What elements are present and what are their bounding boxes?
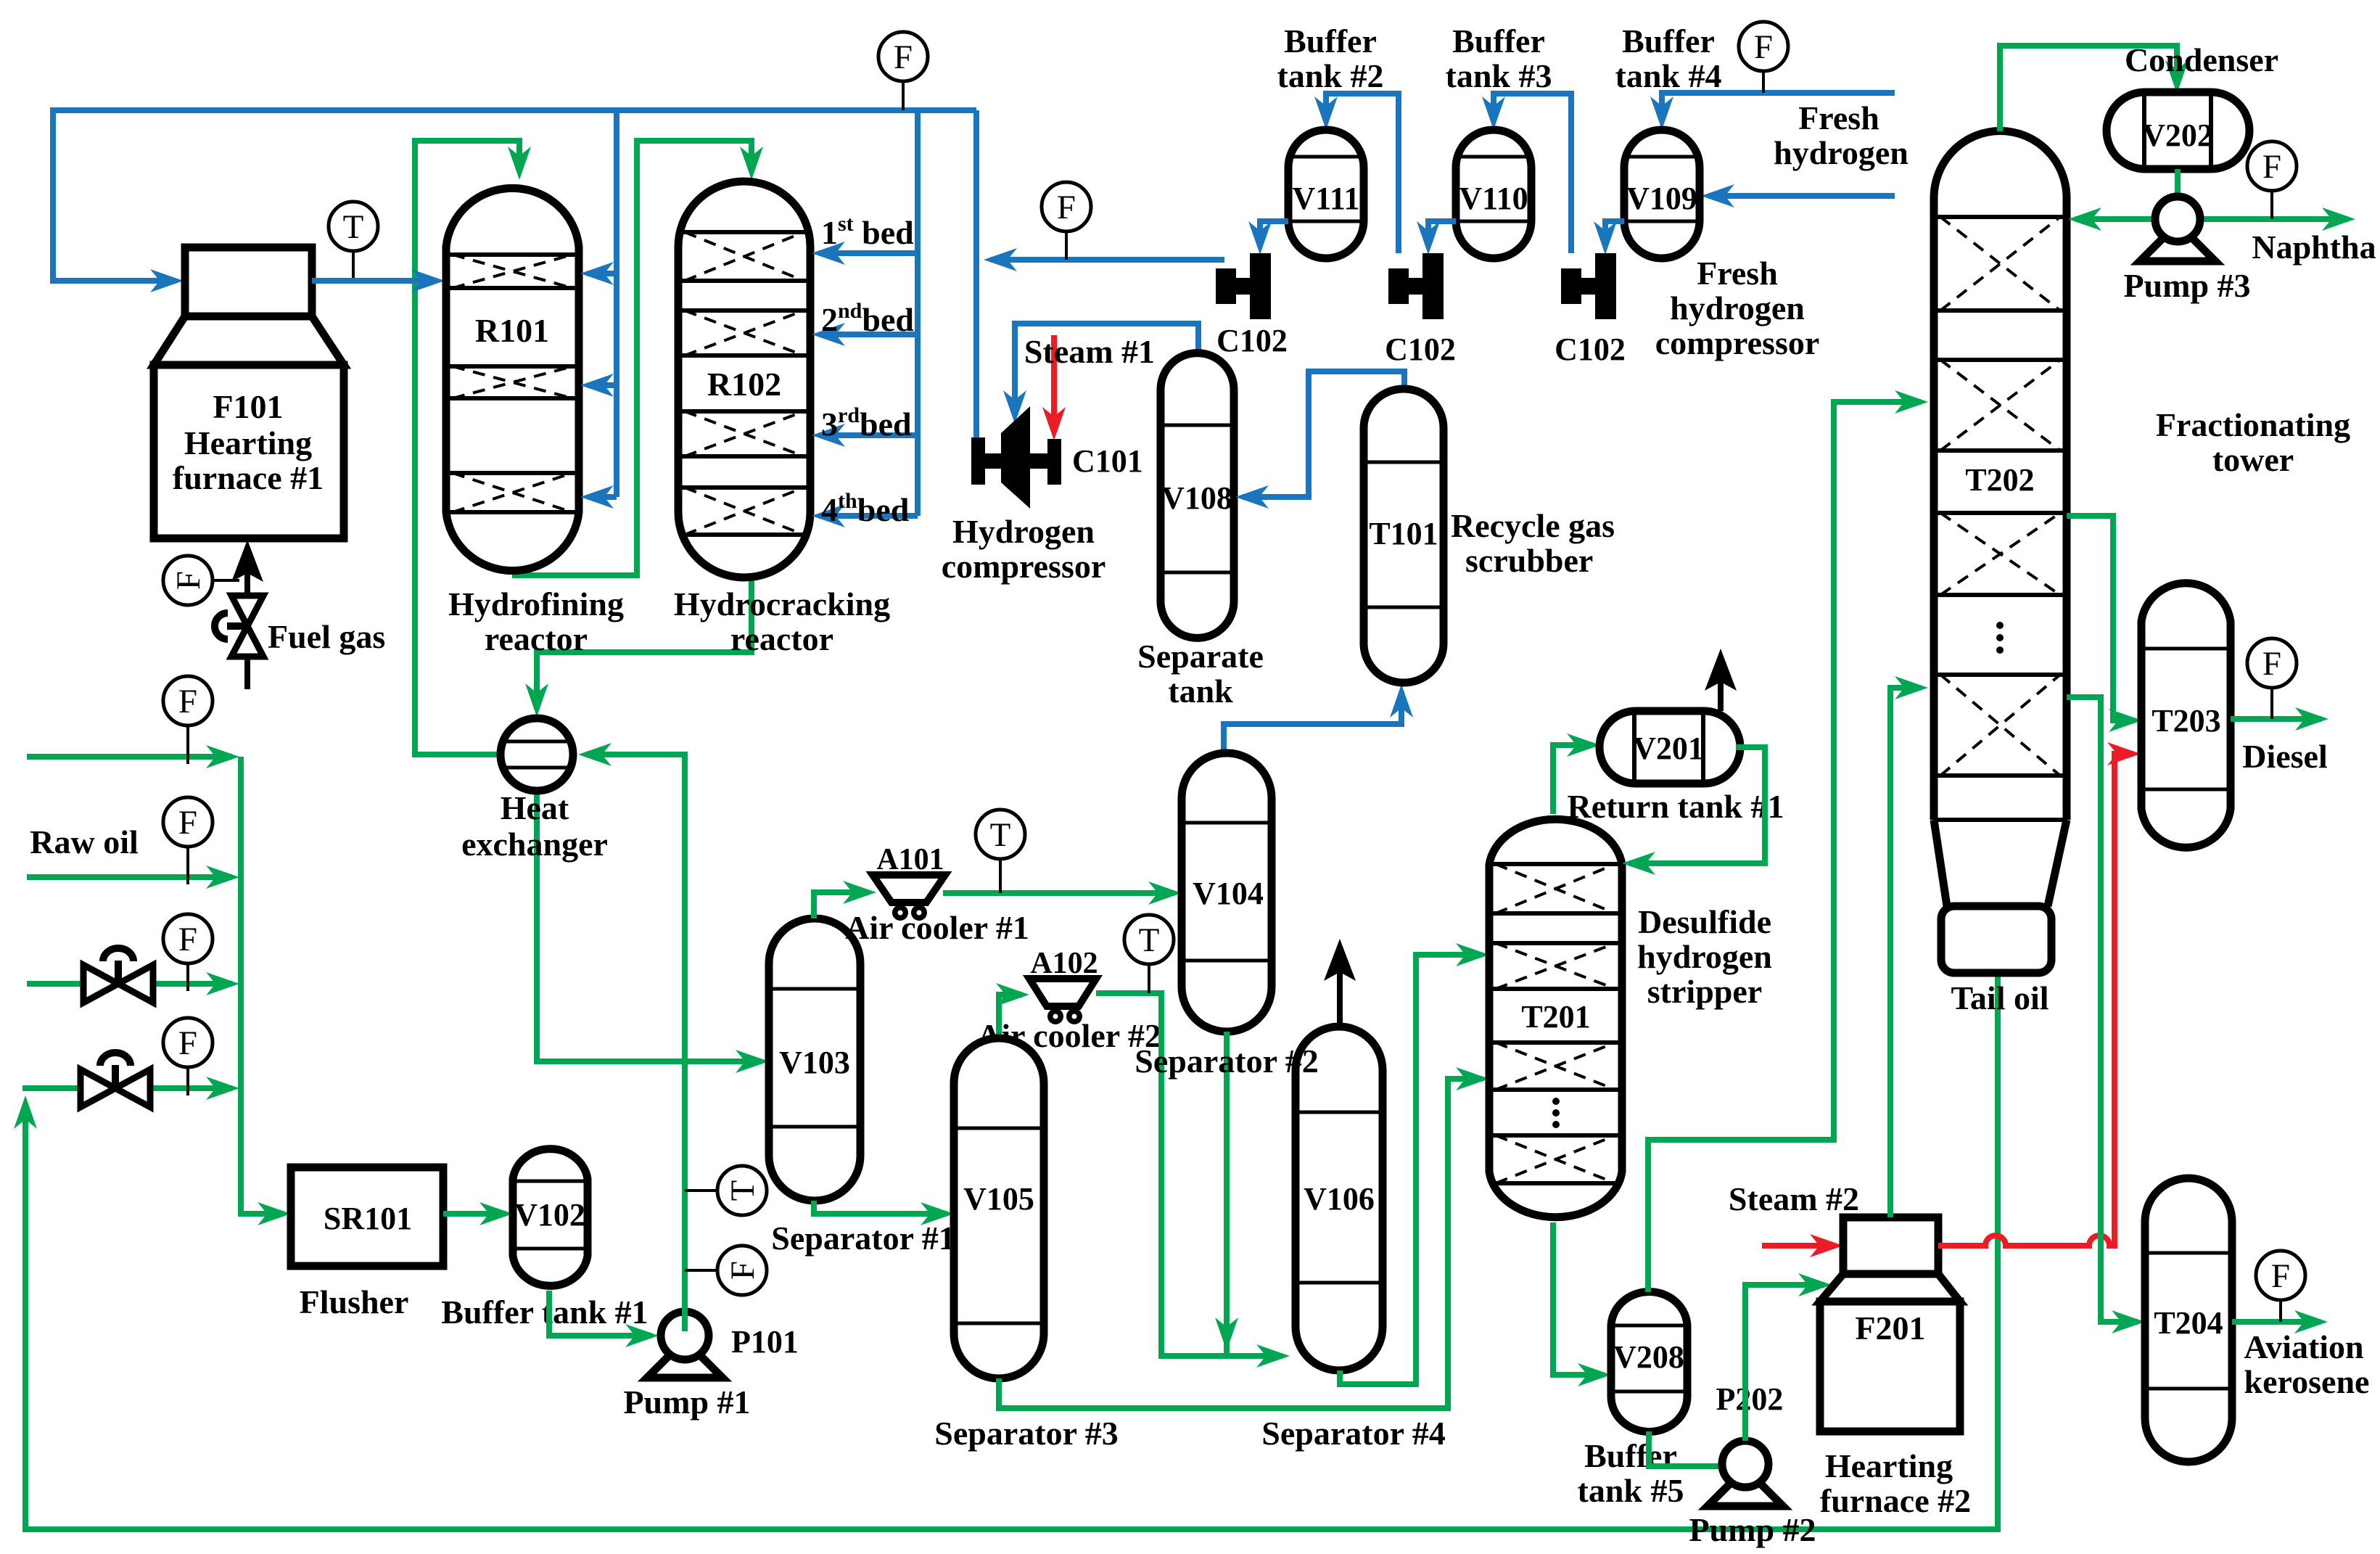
buffer tank V109 xyxy=(1624,130,1700,258)
wire: T201 bottoms to V208 (green) xyxy=(1553,1222,1604,1375)
valve raw oil 4 xyxy=(81,1069,115,1107)
svg-text:T203: T203 xyxy=(2152,703,2220,739)
svg-text:F: F xyxy=(2262,148,2281,186)
tower T202 taper and sump (Tail oil) xyxy=(1934,820,2067,906)
wire: V111 to C102 #1 (blue) xyxy=(1260,221,1288,246)
instrument F11 diesel xyxy=(2270,688,2273,719)
compressor C101 (Hydrogen compressor) xyxy=(971,437,985,485)
svg-text:V106: V106 xyxy=(1304,1181,1375,1217)
svg-text:hydrogen: hydrogen xyxy=(1774,134,1908,171)
svg-text:Condenser: Condenser xyxy=(2125,41,2278,78)
svg-text:T: T xyxy=(990,816,1011,854)
svg-text:R102: R102 xyxy=(707,366,781,403)
svg-text:Hydrogen: Hydrogen xyxy=(952,513,1095,550)
svg-text:Desulfide: Desulfide xyxy=(1638,903,1771,940)
svg-text:scrubber: scrubber xyxy=(1465,542,1593,579)
instrument T1 furnace outlet xyxy=(352,251,355,281)
reactor R102 (Hydrocracking) xyxy=(678,181,810,577)
svg-text:T204: T204 xyxy=(2154,1305,2223,1341)
svg-text:Fuel gas: Fuel gas xyxy=(268,618,385,655)
svg-text:Buffer: Buffer xyxy=(1622,22,1715,59)
pump P202 (Pump #2) xyxy=(1708,1468,1783,1506)
wire: V104 bottoms to V106 (green) xyxy=(1224,1032,1230,1356)
wire: raw oil line 2 (green) xyxy=(27,874,232,880)
wire: V103 overhead to air cooler A101 xyxy=(814,892,869,918)
svg-text:tower: tower xyxy=(2212,441,2294,478)
svg-text:4thbed: 4thbed xyxy=(821,489,910,528)
svg-text:furnace #1: furnace #1 xyxy=(173,459,324,496)
valve raw oil 3 xyxy=(83,965,118,1003)
wire: raw oil line 4 (green) xyxy=(22,1085,232,1091)
instrument T3 after A101 xyxy=(999,859,1002,893)
wire: V106 bottoms to T201 upper feed (green) xyxy=(1340,955,1482,1384)
svg-text:Separate: Separate xyxy=(1137,638,1264,675)
wire: R101 bottoms to R102 top (green) xyxy=(512,141,752,575)
svg-text:T202: T202 xyxy=(1965,462,2034,498)
svg-text:A102: A102 xyxy=(1030,947,1098,980)
svg-text:hydrogen: hydrogen xyxy=(1637,938,1772,975)
buffer tank V110 xyxy=(1456,130,1531,258)
separator V106 xyxy=(1296,1027,1383,1370)
instrument F7 on P101 riser xyxy=(685,1269,717,1272)
svg-text:Raw oil: Raw oil xyxy=(30,823,139,860)
instrument F10 naphtha xyxy=(2270,191,2273,219)
wire: C102 #3 to V110 (blue) xyxy=(1494,94,1571,253)
svg-text:furnace #2: furnace #2 xyxy=(1820,1482,1971,1519)
svg-text:Diesel: Diesel xyxy=(2242,738,2328,775)
svg-text:P202: P202 xyxy=(1716,1381,1784,1417)
wire: V103 bottoms to V105 (green) xyxy=(814,1201,947,1214)
svg-text:Pump #1: Pump #1 xyxy=(623,1384,750,1421)
svg-text:V104: V104 xyxy=(1193,876,1264,911)
compressor C102 #2 xyxy=(1388,268,1409,304)
svg-text:Separator #2: Separator #2 xyxy=(1135,1043,1318,1080)
svg-text:C102: C102 xyxy=(1216,323,1288,358)
svg-text:Fresh: Fresh xyxy=(1798,99,1879,136)
wire: V201 to T201 reflux (green) xyxy=(1629,747,1765,863)
svg-text:Hearting: Hearting xyxy=(184,424,312,461)
instrument F1 on recycle header xyxy=(902,81,905,110)
wire: heat exchanger to R101 top (green) xyxy=(415,141,519,755)
air cooler A102 xyxy=(1029,979,1096,1006)
instrument T2 on P101 riser xyxy=(685,1189,717,1192)
svg-text:P101: P101 xyxy=(731,1324,799,1360)
separator V103 xyxy=(769,918,860,1201)
svg-text:T101: T101 xyxy=(1369,516,1438,551)
wire: V102 to pump P101 xyxy=(549,1291,651,1336)
svg-text:stripper: stripper xyxy=(1647,973,1762,1010)
svg-text:A101: A101 xyxy=(876,843,944,876)
wire: fresh hydrogen supply lower (blue) xyxy=(1708,193,1895,199)
tower T202 internals xyxy=(1938,215,2063,219)
svg-text:SR101: SR101 xyxy=(324,1201,412,1236)
scrubber T101 (Recycle gas scrubber) xyxy=(1364,389,1444,683)
wire: V208 bottoms to pump P202 (green) xyxy=(1649,1431,1722,1466)
svg-text:Separator #3: Separator #3 xyxy=(934,1415,1118,1452)
wire: V208 overhead to fractionating tower T202 (green) xyxy=(1648,402,1921,1292)
wire: F201 heated outlet to T202 lower feed (green) xyxy=(1890,688,1921,1217)
svg-text:Steam #2: Steam #2 xyxy=(1729,1180,1859,1217)
wire: quench hydrogen to R101 beds (blue) xyxy=(614,110,619,497)
svg-text:exchanger: exchanger xyxy=(461,826,608,863)
svg-text:Separator #4: Separator #4 xyxy=(1261,1415,1445,1452)
svg-text:C102: C102 xyxy=(1385,332,1456,367)
tower T204 xyxy=(2145,1178,2232,1462)
svg-text:compressor: compressor xyxy=(1655,324,1820,361)
wire: T101 overhead to V108 (blue) xyxy=(1243,371,1404,497)
svg-text:C101: C101 xyxy=(1072,443,1143,479)
instrument F6 raw oil 4 xyxy=(186,1067,189,1095)
wire: V110 to C102 #2 (blue) xyxy=(1428,221,1456,246)
separate tank V108 xyxy=(1161,353,1234,638)
compressor C102 #1 xyxy=(1216,268,1236,304)
svg-text:V102: V102 xyxy=(514,1197,585,1233)
wire: recycle hydrogen main header (blue) xyxy=(53,110,976,281)
wire: C102 train discharge to riser (blue) xyxy=(991,257,1224,263)
svg-text:compressor: compressor xyxy=(942,548,1106,585)
svg-text:T: T xyxy=(1139,921,1160,959)
wire: V105 bottoms to T201 lower feed (green) xyxy=(999,1079,1482,1408)
svg-text:Heat: Heat xyxy=(501,789,569,826)
svg-text:F: F xyxy=(2271,1257,2290,1295)
air cooler A101 xyxy=(873,875,945,903)
svg-text:F101: F101 xyxy=(213,388,283,425)
svg-text:Pump #2: Pump #2 xyxy=(1689,1511,1816,1548)
return tank V201 xyxy=(1599,711,1740,784)
svg-text:Buffer: Buffer xyxy=(1452,22,1545,59)
wire: fuel gas line xyxy=(244,570,250,689)
svg-text:V105: V105 xyxy=(963,1181,1034,1217)
svg-text:F: F xyxy=(1754,28,1773,66)
wire: heat exchanger bottoms to V103 (green) xyxy=(537,791,762,1061)
svg-text:F: F xyxy=(1057,189,1076,226)
svg-text:Air cooler #1: Air cooler #1 xyxy=(845,909,1029,946)
wire: aviation kerosene product (green) xyxy=(2232,1319,2321,1325)
wire: T202 lower side draw to T204 (green) xyxy=(2067,697,2138,1322)
wire: V106 vent (black) xyxy=(1337,952,1343,1027)
stripper T201 (Desulfide hydrogen stripper) xyxy=(1489,819,1622,1217)
buffer tank V111 xyxy=(1288,130,1364,258)
svg-text:Aviation: Aviation xyxy=(2244,1328,2363,1365)
svg-text:tank #5: tank #5 xyxy=(1578,1472,1684,1509)
svg-text:F201: F201 xyxy=(1855,1310,1925,1347)
wire: tail oil recycle to raw oil (green) xyxy=(25,973,1998,1529)
svg-text:F: F xyxy=(170,571,207,590)
svg-text:tank: tank xyxy=(1168,673,1233,710)
svg-text:V202: V202 xyxy=(2142,118,2213,153)
wire: V105 overhead to air cooler A102 xyxy=(999,995,1022,1038)
svg-text:F: F xyxy=(178,921,197,958)
svg-text:Hydrofining: Hydrofining xyxy=(448,585,624,622)
wire: A102 to V106 (green) xyxy=(1096,993,1282,1356)
svg-text:T: T xyxy=(343,208,364,246)
wire: Steam #1 to C101 (red) xyxy=(1051,335,1057,432)
svg-text:V208: V208 xyxy=(1613,1339,1684,1375)
svg-text:Flusher: Flusher xyxy=(300,1283,409,1320)
svg-text:F: F xyxy=(2262,645,2281,683)
wire: Steam #2 to F201 (red) xyxy=(1762,1243,1835,1249)
svg-text:1st bed: 1st bed xyxy=(821,212,914,251)
instrument F5 raw oil 3 xyxy=(186,963,189,991)
wire: V202 to pump P203 (green) xyxy=(2175,169,2181,197)
svg-text:F: F xyxy=(178,1024,197,1062)
svg-text:Buffer tank #1: Buffer tank #1 xyxy=(441,1294,648,1331)
svg-text:V201: V201 xyxy=(1633,731,1704,766)
compressor C102 #3 xyxy=(1561,268,1581,304)
svg-text:T201: T201 xyxy=(1521,999,1590,1035)
wire: V109 to C102 #3 (blue) xyxy=(1605,221,1624,246)
wire: V201 vent (black) xyxy=(1718,662,1724,711)
svg-text:Tail oil: Tail oil xyxy=(1951,979,2048,1016)
svg-text:V111: V111 xyxy=(1293,181,1360,216)
wire: diesel product (green) xyxy=(2231,716,2321,722)
separator V105 xyxy=(954,1038,1044,1378)
wire: C102 #2 to V111 (blue) xyxy=(1326,94,1399,253)
wire: quench hydrogen to R102 beds (blue) xyxy=(915,110,921,516)
buffer tank V102 xyxy=(513,1149,588,1286)
svg-text:3rdbed: 3rdbed xyxy=(821,403,912,443)
svg-text:Pump #3: Pump #3 xyxy=(2123,267,2250,304)
wire: naphtha product and reflux (green) xyxy=(2075,216,2348,222)
wire: raw oil line 1 (green) xyxy=(27,754,232,760)
svg-text:T: T xyxy=(724,1180,762,1201)
tower T203 xyxy=(2141,583,2231,848)
wire: A101 to V104 (green) xyxy=(943,890,1174,896)
wire: furnace F101 outlet to R101 (blue) xyxy=(312,278,434,284)
wire: raw oil line 3 (green) xyxy=(27,981,232,987)
reactor R101 (Hydrofining) xyxy=(446,188,579,570)
flusher SR101 xyxy=(291,1167,443,1266)
buffer tank V208 (Buffer tank #5) xyxy=(1611,1292,1687,1432)
svg-text:Steam #1: Steam #1 xyxy=(1024,333,1155,370)
wire: compressor discharge riser (blue) xyxy=(973,110,979,437)
separator V104 xyxy=(1182,753,1272,1032)
svg-text:Hydrocracking: Hydrocracking xyxy=(674,585,890,622)
heat exchanger xyxy=(501,718,573,791)
svg-text:F: F xyxy=(178,683,197,720)
svg-text:tank #4: tank #4 xyxy=(1615,57,1722,94)
condenser V202 xyxy=(2107,92,2249,169)
svg-text:Recycle gas: Recycle gas xyxy=(1451,507,1615,544)
furnace F201 (Hearting furnace #2) xyxy=(1843,1217,1938,1274)
svg-text:tank #3: tank #3 xyxy=(1446,57,1552,94)
wire: P101 discharge to heat exchanger (green) xyxy=(585,755,685,1331)
wire: P202 discharge to furnace F201 (green) xyxy=(1745,1285,1824,1441)
wire: T201 overhead to V201 (green) xyxy=(1553,745,1593,814)
svg-text:V103: V103 xyxy=(779,1045,850,1080)
instrument F12 aviation kerosene xyxy=(2279,1300,2282,1322)
svg-text:Return tank #1: Return tank #1 xyxy=(1567,788,1784,825)
instrument T4 after A102 xyxy=(1148,964,1150,993)
svg-text:2ndbed: 2ndbed xyxy=(821,299,914,338)
instrument F4 raw oil 2 xyxy=(186,847,189,884)
instrument F9 fresh hydrogen xyxy=(1762,71,1765,93)
svg-text:hydrogen: hydrogen xyxy=(1670,289,1805,326)
svg-text:V108: V108 xyxy=(1161,480,1232,516)
pump P203 (Pump #3) xyxy=(2140,223,2215,261)
svg-text:V109: V109 xyxy=(1626,181,1697,216)
svg-text:C102: C102 xyxy=(1555,332,1626,367)
furnace F101 xyxy=(185,247,312,316)
fractionating tower T202 xyxy=(1934,131,2067,820)
svg-text:reactor: reactor xyxy=(485,620,588,657)
valve fuel gas xyxy=(231,596,263,626)
svg-text:Separator #1: Separator #1 xyxy=(771,1220,955,1257)
instrument F8 on compressor discharge xyxy=(1065,231,1068,260)
instrument F3 raw oil 1 xyxy=(186,725,189,764)
wire: R102 bottoms to heat exchanger (green) xyxy=(537,577,752,710)
svg-text:Buffer: Buffer xyxy=(1284,22,1377,59)
svg-text:Hearting: Hearting xyxy=(1825,1447,1953,1484)
wire: raw oil collector to flusher SR101 xyxy=(241,757,284,1214)
wire: F201 hot oil to T203 (red, hops over green lines) xyxy=(1938,754,2133,1246)
svg-text:tank #2: tank #2 xyxy=(1277,57,1384,94)
svg-text:F: F xyxy=(724,1261,762,1280)
wire: SR101 to V102 xyxy=(443,1211,506,1217)
svg-text:V110: V110 xyxy=(1459,181,1528,216)
svg-text:F: F xyxy=(178,804,197,842)
svg-text:reactor: reactor xyxy=(730,620,833,657)
wire: V104 overhead to T101 bottom (blue) xyxy=(1224,691,1401,753)
svg-text:F: F xyxy=(894,38,913,76)
wire: T202 side draw to T203 (green) xyxy=(2067,516,2135,720)
wire: V108 overhead to C101 suction (blue) xyxy=(1015,324,1198,415)
svg-text:Naphtha: Naphtha xyxy=(2252,229,2376,266)
svg-text:kerosene: kerosene xyxy=(2244,1363,2370,1400)
instrument F2 fuel gas xyxy=(213,579,239,582)
svg-text:Fractionating: Fractionating xyxy=(2156,406,2350,443)
wire: fresh hydrogen supply top (blue) xyxy=(1662,93,1895,121)
svg-text:R101: R101 xyxy=(475,312,549,349)
wire: T202 overhead to condenser V202 (green) xyxy=(2000,46,2177,131)
pump P101 (Pump #1) xyxy=(647,1340,722,1378)
svg-text:Fresh: Fresh xyxy=(1697,255,1778,292)
